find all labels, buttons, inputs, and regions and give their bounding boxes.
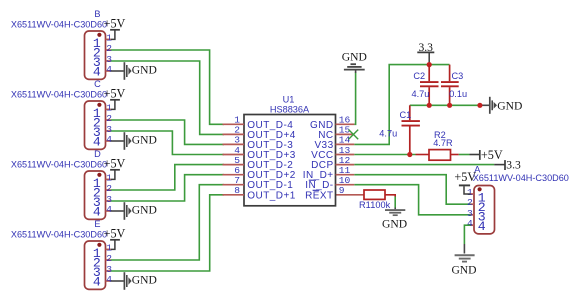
svg-text:2: 2 bbox=[106, 183, 112, 194]
svg-text:4.7u: 4.7u bbox=[379, 128, 397, 138]
capacitor C3 bbox=[441, 65, 459, 106]
pin 2 connector D bbox=[106, 189, 111, 191]
overbar on IN_D- pin name bbox=[309, 179, 316, 181]
pin 3 connector B bbox=[106, 60, 111, 62]
op-amp U1 body HS8836A bbox=[244, 115, 336, 206]
power +5V right bbox=[470, 154, 480, 156]
connector A X6511WV-04H-C30D60 bbox=[474, 186, 495, 234]
pin 2 connector B bbox=[106, 49, 111, 51]
pin 2 connector C bbox=[106, 119, 111, 121]
svg-text:GND: GND bbox=[132, 203, 157, 216]
svg-text:B: B bbox=[94, 9, 100, 19]
wire U1.13 VCC to +5V bbox=[354, 154, 415, 156]
svg-text:4: 4 bbox=[467, 218, 473, 229]
pin 3 connector C bbox=[106, 130, 111, 132]
overbar on REXT pin name bbox=[313, 189, 320, 191]
wire D.3 to U1.6 bbox=[111, 175, 224, 201]
wire E.2 to U1.7 bbox=[111, 185, 224, 260]
svg-text:4: 4 bbox=[93, 205, 101, 220]
svg-text:4.7R: 4.7R bbox=[433, 138, 453, 148]
svg-text:4.7u: 4.7u bbox=[412, 89, 430, 99]
ground GND at D.4 bbox=[111, 210, 124, 212]
svg-text:1: 1 bbox=[106, 32, 112, 43]
node junction C2 bottom bbox=[427, 103, 432, 108]
wire D.2 to U1.5 bbox=[111, 165, 224, 190]
svg-text:X6511WV-04H-C30D60: X6511WV-04H-C30D60 bbox=[473, 173, 569, 183]
pin 3 connector E bbox=[106, 270, 111, 272]
svg-text:3: 3 bbox=[467, 208, 473, 219]
pin1 marker dot E bbox=[97, 243, 101, 247]
wire U1.14 V33 to 3.3 node bbox=[354, 65, 449, 145]
power 3.3 top bbox=[428, 53, 430, 65]
pin 4 connector D bbox=[106, 210, 111, 212]
svg-text:2: 2 bbox=[106, 43, 112, 54]
svg-text:GND: GND bbox=[132, 63, 157, 76]
wire C.3 to U1.4 bbox=[111, 131, 224, 155]
svg-text:4: 4 bbox=[106, 274, 112, 285]
svg-text:C: C bbox=[94, 79, 101, 89]
svg-text:OUT_D+1: OUT_D+1 bbox=[247, 190, 295, 201]
power +5V at D.1 bbox=[111, 170, 115, 179]
svg-text:1: 1 bbox=[106, 242, 112, 253]
pin 6 U1 OUT_D+2 bbox=[223, 174, 245, 176]
svg-text:4: 4 bbox=[93, 135, 101, 150]
pin 1 connector C bbox=[106, 108, 111, 110]
wire E.3 to U1.8 bbox=[111, 195, 224, 271]
power +5V at B.1 bbox=[111, 30, 115, 39]
svg-text:1: 1 bbox=[106, 172, 112, 183]
power +5V at A.1 bbox=[464, 186, 471, 194]
svg-text:X6511WV-04H-C30D60: X6511WV-04H-C30D60 bbox=[11, 159, 107, 169]
node junction C1/VCC bbox=[407, 152, 412, 157]
pin 3 U1 OUT_D-3 bbox=[223, 143, 245, 145]
ground GND at B.4 bbox=[111, 70, 124, 72]
wire C.2 to U1.3 bbox=[111, 120, 224, 144]
svg-text:+5V: +5V bbox=[104, 226, 126, 240]
svg-text:2: 2 bbox=[106, 253, 112, 264]
pin1 marker dot B bbox=[97, 33, 101, 37]
pin 2 U1 OUT_D+4 bbox=[223, 133, 245, 135]
wire U1.12 DCP to 3.3 bbox=[354, 164, 494, 166]
pin 4 connector E bbox=[106, 280, 111, 282]
power 3.3 right bbox=[494, 164, 505, 166]
svg-text:4: 4 bbox=[106, 134, 112, 145]
svg-text:REXT: REXT bbox=[305, 190, 333, 201]
svg-text:GND: GND bbox=[132, 133, 157, 146]
svg-text:3.3: 3.3 bbox=[418, 41, 433, 54]
connector C X6511WV-04H-C30D60 bbox=[85, 101, 106, 149]
ground GND right of C3 bbox=[490, 97, 492, 114]
connector D X6511WV-04H-C30D60 bbox=[85, 171, 106, 219]
svg-text:GND: GND bbox=[451, 264, 476, 277]
wire B.2 to U1.1 bbox=[111, 50, 224, 124]
resistor R1 bbox=[336, 194, 365, 196]
pin 11 U1 IN_D+ bbox=[336, 174, 355, 176]
svg-text:X6511WV-04H-C30D60: X6511WV-04H-C30D60 bbox=[11, 89, 107, 99]
svg-text:E: E bbox=[94, 219, 100, 229]
pin 1 connector A bbox=[471, 193, 475, 195]
svg-text:+5V: +5V bbox=[481, 148, 503, 162]
pin 4 U1 OUT_D+3 bbox=[223, 154, 245, 156]
svg-text:8: 8 bbox=[234, 185, 240, 196]
svg-text:HS8836A: HS8836A bbox=[270, 105, 310, 115]
pin 4 connector C bbox=[106, 140, 111, 142]
svg-text:X6511WV-04H-C30D60: X6511WV-04H-C30D60 bbox=[11, 229, 107, 239]
wire U1.16 GND net bbox=[354, 73, 355, 125]
pin1 marker dot A bbox=[478, 187, 482, 191]
resistor R2 bbox=[416, 154, 430, 156]
svg-text:GND: GND bbox=[342, 50, 367, 63]
pin 2 connector A bbox=[471, 203, 475, 205]
pin 1 connector B bbox=[106, 38, 111, 40]
svg-text:0.1u: 0.1u bbox=[449, 89, 467, 99]
svg-text:4: 4 bbox=[93, 275, 101, 290]
svg-text:4: 4 bbox=[106, 64, 112, 75]
wire B.3 to U1.2 bbox=[111, 61, 224, 134]
svg-text:3.3: 3.3 bbox=[506, 158, 521, 171]
ground GND at E.4 bbox=[111, 280, 124, 282]
node junction at GND tap bbox=[477, 103, 482, 108]
wire C-bottom node to GND bbox=[410, 104, 480, 106]
connector E X6511WV-04H-C30D60 bbox=[85, 241, 106, 289]
pin 3 connector A bbox=[471, 214, 475, 216]
capacitor C2 bbox=[420, 65, 439, 106]
pin 10 U1 IN_D- bbox=[336, 184, 355, 186]
pin 8 U1 OUT_D+1 bbox=[223, 194, 245, 196]
ground GND at C.4 bbox=[111, 140, 124, 142]
power +5V at C.1 bbox=[111, 100, 115, 109]
svg-text:+5V: +5V bbox=[104, 16, 126, 30]
pin 15 U1 NC bbox=[336, 133, 355, 135]
pin 3 connector D bbox=[106, 200, 111, 202]
svg-text:+5V: +5V bbox=[104, 156, 126, 170]
wire A.4 to GND bbox=[464, 225, 470, 244]
svg-text:4: 4 bbox=[478, 219, 486, 234]
pin 16 U1 GND bbox=[336, 123, 355, 125]
svg-text:4: 4 bbox=[106, 204, 112, 215]
pin 4 connector A bbox=[471, 224, 475, 226]
svg-text:GND: GND bbox=[382, 217, 407, 230]
svg-text:4: 4 bbox=[93, 65, 101, 80]
pin 12 U1 DCP bbox=[336, 164, 355, 166]
ground GND below R1 bbox=[385, 210, 405, 215]
connector B X6511WV-04H-C30D60 bbox=[85, 31, 106, 79]
wire R1 to GND bbox=[394, 197, 396, 208]
pin 13 U1 VCC bbox=[336, 154, 355, 156]
svg-text:2: 2 bbox=[467, 197, 473, 208]
pin 4 connector B bbox=[106, 70, 111, 72]
node junction C3 bottom bbox=[447, 103, 452, 108]
svg-text:C3: C3 bbox=[452, 71, 464, 81]
pin 1 U1 OUT_D-4 bbox=[223, 123, 245, 125]
ground GND below A bbox=[455, 255, 475, 261]
pin 1 connector E bbox=[106, 248, 111, 250]
node junction 3.3/C2 bbox=[427, 62, 432, 67]
svg-text:2: 2 bbox=[106, 113, 112, 124]
capacitor C1 bbox=[402, 105, 420, 154]
svg-text:9: 9 bbox=[339, 185, 345, 196]
svg-text:U1: U1 bbox=[283, 95, 295, 105]
svg-text:100k: 100k bbox=[370, 200, 390, 210]
pin 14 U1 V33 bbox=[336, 143, 355, 145]
pin 7 U1 OUT_D-1 bbox=[223, 184, 245, 186]
pin1 marker dot D bbox=[97, 173, 101, 177]
wire U1.10 IN_D- to A.3 bbox=[354, 185, 470, 215]
ground GND above U1 bbox=[344, 64, 365, 69]
wire U1.11 IN_D+ to A.2 bbox=[354, 175, 470, 205]
power +5V at E.1 bbox=[111, 240, 115, 249]
svg-text:D: D bbox=[94, 149, 101, 159]
svg-text:GND: GND bbox=[132, 273, 157, 286]
no-connect X on U1 pin 15 bbox=[349, 130, 359, 140]
svg-text:R1: R1 bbox=[359, 200, 371, 210]
pin1 marker dot C bbox=[97, 103, 101, 107]
svg-text:X6511WV-04H-C30D60: X6511WV-04H-C30D60 bbox=[11, 19, 107, 29]
pin 5 U1 OUT_D-2 bbox=[223, 164, 245, 166]
svg-text:GND: GND bbox=[497, 100, 522, 113]
svg-text:+5V: +5V bbox=[104, 86, 126, 100]
svg-text:C2: C2 bbox=[413, 71, 425, 81]
pin 1 connector D bbox=[106, 178, 111, 180]
pin 2 connector E bbox=[106, 259, 111, 261]
svg-text:C1: C1 bbox=[400, 110, 412, 120]
svg-text:1: 1 bbox=[106, 102, 112, 113]
